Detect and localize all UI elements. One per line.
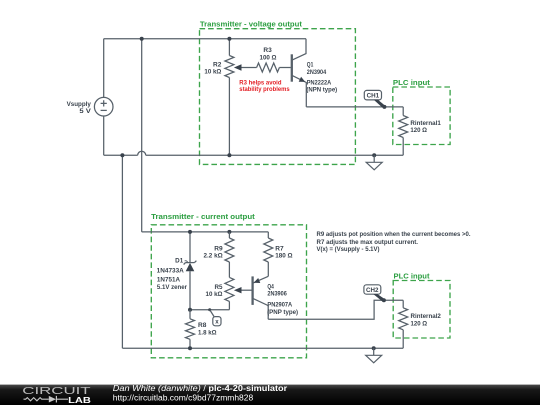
svg-text:R7: R7 [275,245,284,252]
svg-text:R3: R3 [263,47,272,54]
svg-text:Dan White (danwhite) / plc-4-2: Dan White (danwhite) / plc-4-20-simulato… [113,384,287,393]
svg-text:(NPN type): (NPN type) [306,86,337,93]
svg-text:PN2222A: PN2222A [307,79,332,86]
svg-text:(PNP type): (PNP type) [267,309,298,316]
svg-text:1.8 kΩ: 1.8 kΩ [198,330,217,337]
svg-text:5.1V zener: 5.1V zener [157,284,188,291]
svg-text:Transmitter - current output: Transmitter - current output [151,212,255,221]
svg-text:R9 adjusts pot position when t: R9 adjusts pot position when the current… [317,231,471,238]
svg-text:Q1: Q1 [307,62,314,69]
svg-text:180 Ω: 180 Ω [275,252,292,259]
svg-text:R5: R5 [215,284,224,291]
svg-text:Rinternal2: Rinternal2 [411,313,442,320]
svg-text:10 kΩ: 10 kΩ [204,69,221,76]
svg-text:CH2: CH2 [366,287,379,294]
svg-text:1N751A: 1N751A [157,276,181,283]
svg-text:2.2 kΩ: 2.2 kΩ [204,252,223,259]
svg-text:2N3906: 2N3906 [267,291,287,298]
svg-text:CH1: CH1 [367,93,380,100]
svg-text:PN2907A: PN2907A [267,302,292,309]
svg-text:120 Ω: 120 Ω [410,127,427,134]
svg-text:10 kΩ: 10 kΩ [206,291,223,298]
svg-text:R9: R9 [214,245,223,252]
svg-text:Transmitter - voltage output: Transmitter - voltage output [200,19,303,28]
svg-text:Vsupply: Vsupply [67,101,92,108]
svg-text:R8: R8 [198,322,207,329]
svg-text:Rinternal1: Rinternal1 [410,120,441,127]
svg-text:5 V: 5 V [79,108,92,115]
svg-text:http://circuitlab.com/c9bd77zm: http://circuitlab.com/c9bd77zmmh828 [113,393,254,402]
svg-text:LAB: LAB [68,395,91,405]
svg-text:x: x [215,319,219,326]
svg-text:Q4: Q4 [267,283,274,290]
svg-text:PLC input: PLC input [393,78,431,87]
svg-text:V(x) = (Vsupply - 5.1V): V(x) = (Vsupply - 5.1V) [317,246,380,253]
svg-text:120 Ω: 120 Ω [411,321,428,328]
svg-text:stability problems: stability problems [239,86,290,93]
svg-text:R2: R2 [213,61,222,68]
svg-text:2N3904: 2N3904 [307,69,327,76]
svg-text:1N4733A: 1N4733A [157,267,185,274]
svg-text:D1: D1 [175,258,184,265]
svg-text:100 Ω: 100 Ω [260,55,277,62]
svg-text:PLC input: PLC input [394,272,431,281]
